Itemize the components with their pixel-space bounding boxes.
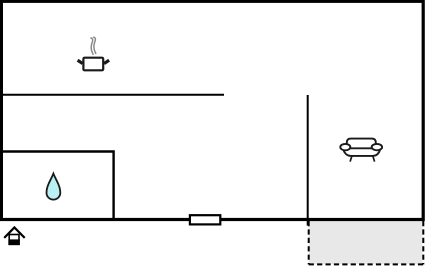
sofa seat line — [348, 147, 375, 149]
sofa left armrest — [340, 144, 350, 150]
bathroom icon: water drop — [47, 174, 61, 200]
window (bottom wall) — [190, 215, 220, 224]
house body — [9, 235, 19, 245]
steam line right — [94, 37, 96, 53]
sofa right leg — [373, 156, 375, 162]
house roof — [4, 228, 25, 238]
pot right handle — [104, 60, 109, 63]
pot body — [83, 58, 103, 71]
pot left handle — [78, 60, 83, 63]
terrace (dashed patio area, grey fill) — [309, 220, 424, 264]
entrance marker: small house icon — [4, 228, 25, 246]
interior wall: kitchen / living separator (horizontal) — [0, 94, 224, 96]
bathroom walls (bottom-left room) — [1, 152, 114, 220]
sofa left leg — [350, 156, 352, 162]
kitchen icon: cooking pot — [78, 37, 110, 70]
house body solid lower half — [8, 239, 19, 245]
living room icon: sofa — [340, 139, 382, 162]
steam line left — [91, 38, 93, 54]
sofa lower body — [343, 149, 380, 156]
sofa backrest — [347, 139, 376, 147]
interior wall: living room (vertical) — [307, 95, 309, 226]
sofa right armrest — [372, 144, 382, 150]
